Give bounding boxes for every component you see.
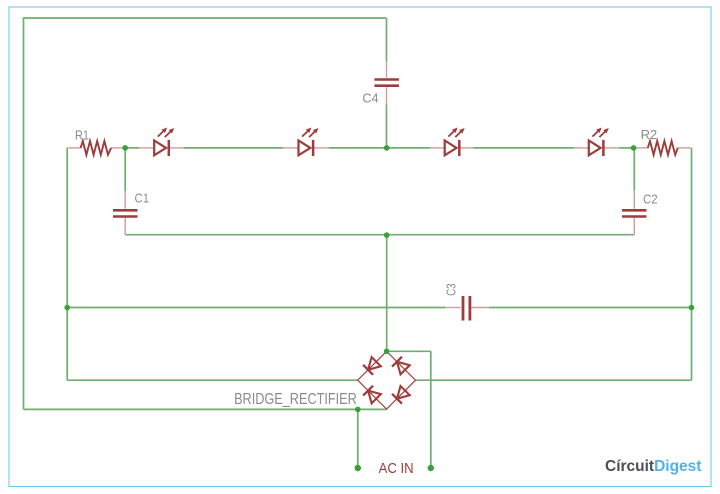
resistor R1 bbox=[81, 141, 112, 155]
LED D4 bbox=[589, 128, 609, 157]
pin stub LED3 cathode bbox=[459, 147, 473, 149]
pin stub C1 bottom bbox=[124, 218, 126, 235]
terminal AC right bbox=[428, 465, 434, 471]
wire C3 right segment bbox=[489, 307, 692, 309]
terminal AC left bbox=[355, 465, 361, 471]
junction node right C3 wire bbox=[689, 305, 695, 311]
wire to bridge right vertex bbox=[416, 379, 692, 381]
bridge rectifier diamond outline bbox=[358, 351, 416, 409]
junction node bridge top bbox=[384, 349, 390, 355]
wire right inner vertical bbox=[691, 148, 693, 380]
pin stub LED2 cathode bbox=[313, 147, 329, 149]
bridge diode top-left bbox=[363, 357, 381, 375]
junction node R1-C1-LED1 bbox=[122, 145, 128, 151]
junction node mid wire bbox=[384, 232, 390, 238]
pin stub R1 right bbox=[111, 147, 125, 149]
LED D1 bbox=[154, 128, 174, 157]
LED D3 bbox=[445, 128, 465, 157]
svg-text:R2: R2 bbox=[641, 128, 658, 142]
pin stub LED3 anode bbox=[430, 147, 445, 149]
wire mid horizontal C1 to C2 bbox=[125, 234, 634, 236]
svg-text:C1: C1 bbox=[135, 192, 150, 206]
svg-text:C4: C4 bbox=[362, 91, 378, 105]
wire top horizontal (outer loop to C4) bbox=[24, 17, 387, 19]
LED D2 bbox=[299, 128, 319, 157]
pin stub LED4 cathode bbox=[603, 147, 619, 149]
capacitor C4 bbox=[374, 80, 399, 86]
wire bridge top to AC right branch bbox=[387, 350, 431, 352]
wire row segment LED3 to LED4 bbox=[473, 147, 574, 149]
svg-text:C3: C3 bbox=[444, 283, 459, 296]
pin stub C2 top bbox=[633, 191, 635, 209]
resistor R2 bbox=[648, 141, 678, 155]
wire C4 bottom to row node bbox=[386, 105, 388, 148]
pin stub R2 right bbox=[678, 147, 692, 149]
wire bottom horizontal to bridge bottom vertex bbox=[24, 408, 387, 410]
wire C2 top lead bbox=[633, 148, 635, 191]
capacitor C1 bbox=[113, 210, 138, 216]
wire to bridge left vertex bbox=[67, 379, 358, 381]
wire left inner vertical bbox=[66, 148, 68, 380]
pin stub C3 left bbox=[445, 307, 461, 309]
wire mid node to bridge top vertex bbox=[386, 235, 388, 351]
pin stub LED1 cathode bbox=[169, 147, 184, 149]
pin stub LED1 anode bbox=[139, 147, 154, 149]
wire row segment node1 to LED1 bbox=[125, 147, 139, 149]
svg-text:AC IN: AC IN bbox=[379, 461, 414, 477]
wire C1 top lead bbox=[124, 148, 126, 191]
wire row segment LED1 to LED2 bbox=[184, 147, 284, 149]
wire AC right drop bbox=[430, 351, 432, 468]
wire C4 top lead vertical bbox=[386, 18, 388, 62]
junction node bridge bottom-left bbox=[355, 407, 361, 413]
wire C3 left segment bbox=[67, 307, 445, 309]
wire AC left drop bbox=[357, 409, 359, 468]
pin stub C2 bottom bbox=[633, 218, 635, 235]
svg-text:CírcuitDigest: CírcuitDigest bbox=[605, 458, 701, 475]
pin stub C3 right bbox=[471, 307, 489, 309]
pin stub R1 left bbox=[67, 147, 80, 149]
bridge diode bottom-right bbox=[392, 386, 410, 404]
pin stub LED2 anode bbox=[283, 147, 299, 149]
bridge diode bottom-left bbox=[363, 386, 381, 404]
capacitor C2 bbox=[622, 210, 647, 216]
pin stub LED4 anode bbox=[574, 147, 589, 149]
svg-text:C2: C2 bbox=[643, 193, 658, 207]
pin stub R2 left bbox=[634, 147, 648, 149]
pin stub C4 top bbox=[386, 62, 388, 78]
junction node C4-row bbox=[384, 145, 390, 151]
junction node LED4-R2-C2 bbox=[631, 145, 637, 151]
pin stub C1 top bbox=[124, 191, 126, 209]
pin stub C4 bottom bbox=[386, 87, 388, 105]
svg-text:R1: R1 bbox=[75, 129, 89, 143]
wire row segment LED4 to node3 bbox=[619, 147, 634, 149]
wire left outer vertical bbox=[23, 17, 25, 409]
capacitor C3 bbox=[463, 296, 470, 321]
bridge diode top-right bbox=[392, 357, 410, 375]
wire row segment LED2 to LED3 bbox=[329, 147, 430, 149]
svg-text:BRIDGE_RECTIFIER: BRIDGE_RECTIFIER bbox=[234, 391, 357, 408]
junction node left C3 wire bbox=[64, 305, 70, 311]
